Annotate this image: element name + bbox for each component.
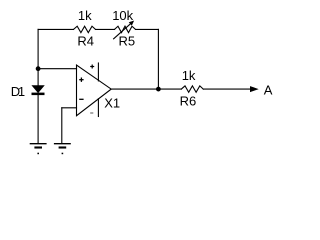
- wire noninverting input: [38, 68, 76, 70]
- wire between R4 and R5: [96, 28, 115, 30]
- op-amp positive supply plus label: [90, 65, 94, 69]
- op-amp power pin bottom: [97, 99, 99, 117]
- wire top horizontal left segment: [38, 28, 73, 30]
- svg-text:X1: X1: [104, 96, 120, 111]
- junction node at input: [36, 66, 41, 71]
- svg-text:A: A: [264, 83, 273, 98]
- svg-text:1k: 1k: [182, 68, 196, 83]
- resistor R6: [181, 86, 203, 92]
- resistor R4: [74, 26, 96, 32]
- wire R5 to right corner: [136, 28, 159, 30]
- ground under D1: [30, 144, 47, 155]
- op-amp inverting input minus mark: [79, 98, 83, 100]
- svg-text:1k: 1k: [78, 8, 92, 23]
- svg-text:R5: R5: [119, 34, 136, 49]
- wire junction to diode: [37, 69, 39, 86]
- wire inverting input vertical to ground: [61, 108, 63, 143]
- op-amp power pin top: [97, 63, 99, 81]
- op-amp negative supply minus label: [90, 112, 93, 114]
- diode D1 cathode bar: [32, 93, 45, 96]
- op-amp noninverting input plus mark: [79, 78, 83, 82]
- wire R6 to node A: [203, 88, 250, 90]
- diode D1: [32, 86, 44, 93]
- op-amp X1 triangle: [77, 65, 112, 116]
- ground under inverting input: [54, 144, 71, 155]
- wire right vertical (feedback down to output): [157, 29, 159, 89]
- wire output: [111, 88, 181, 90]
- resistor R5 (variable): [115, 26, 136, 32]
- svg-text:D1: D1: [11, 84, 25, 99]
- R5 wiper arrow: [114, 22, 133, 39]
- wire inverting input horizontal: [62, 107, 77, 109]
- svg-text:10k: 10k: [112, 8, 133, 23]
- output arrowhead to node A: [250, 87, 257, 92]
- junction node at output: [156, 87, 161, 92]
- wire left vertical (feedback to input node): [37, 29, 39, 68]
- R5 arrowhead: [129, 21, 133, 25]
- svg-text:R4: R4: [77, 34, 94, 49]
- svg-text:R6: R6: [180, 94, 197, 109]
- wire diode to ground: [37, 95, 39, 143]
